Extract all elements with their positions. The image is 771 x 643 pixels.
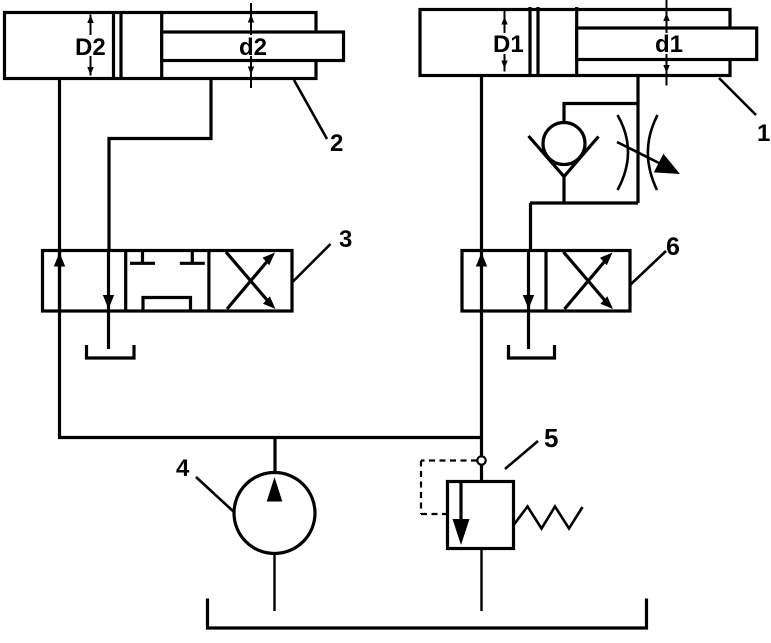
svg-text:D1: D1	[493, 31, 524, 58]
svg-text:2: 2	[330, 130, 343, 157]
svg-text:3: 3	[339, 226, 352, 253]
svg-text:d1: d1	[655, 31, 683, 58]
svg-text:1: 1	[757, 120, 770, 147]
svg-text:4: 4	[176, 455, 190, 482]
svg-text:d2: d2	[239, 34, 267, 61]
svg-text:6: 6	[666, 233, 680, 261]
svg-text:5: 5	[544, 423, 558, 453]
svg-text:D2: D2	[75, 34, 106, 61]
